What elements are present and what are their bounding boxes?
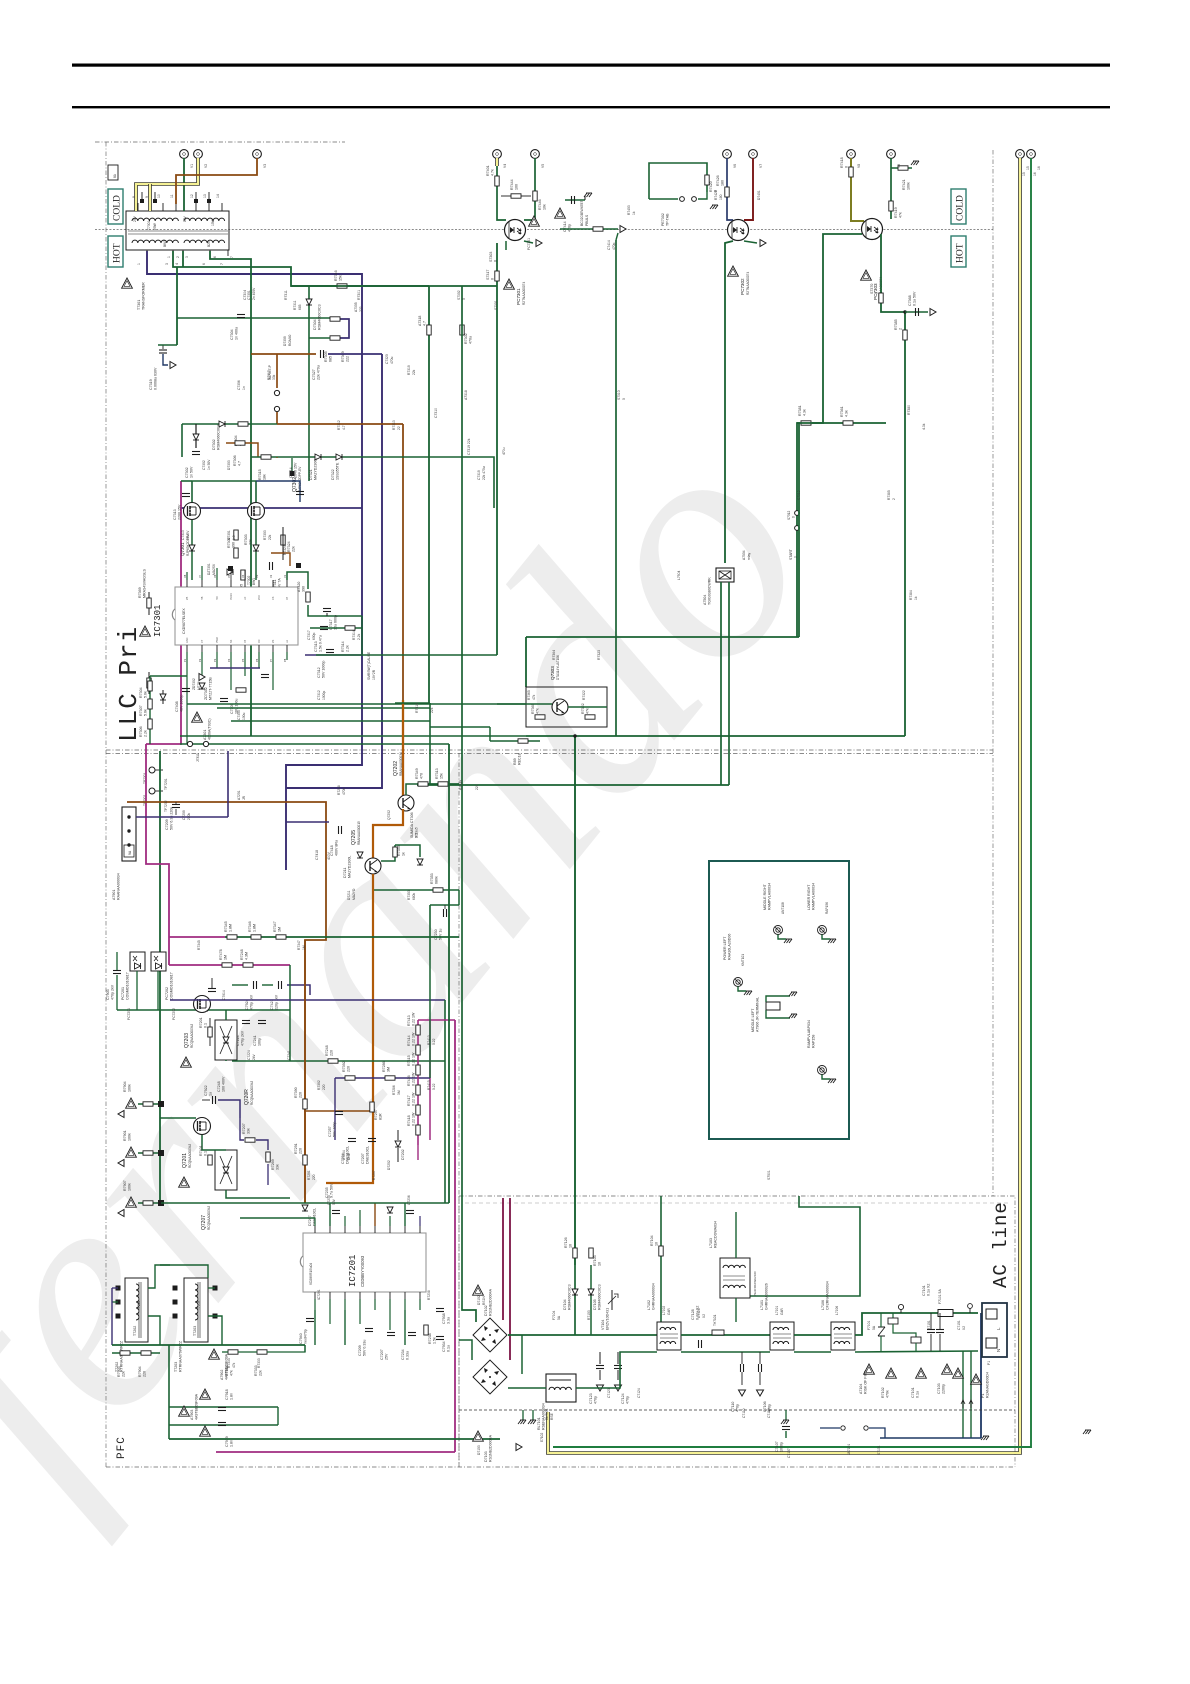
MOSFET Q7302 (255, 481, 257, 502)
svg-text:R7426: R7426 (714, 190, 718, 200)
zener D7202 (395, 1141, 401, 1147)
svg-text:SMRSW(T)CAUSE: SMRSW(T)CAUSE (367, 651, 371, 680)
svg-text:R7385: R7385 (894, 319, 898, 330)
svg-text:R7101: R7101 (927, 1320, 931, 1330)
svg-text:R7305: R7305 (324, 351, 328, 362)
svg-text:C7101: C7101 (922, 1285, 926, 1296)
svg-text:0: 0 (792, 516, 796, 518)
svg-text:X2: X2 (962, 1326, 966, 1330)
svg-text:220: 220 (143, 1371, 147, 1377)
svg-text:R7444: R7444 (510, 179, 514, 190)
svg-text:IC7201: IC7201 (348, 1255, 358, 1287)
svg-text:C7110: C7110 (742, 1408, 746, 1418)
resistor R7346 (251, 935, 261, 939)
svg-text:0.22: 0.22 (432, 1038, 436, 1045)
svg-text:COLD: COLD (956, 195, 966, 221)
svg-text:T7202: T7202 (133, 1326, 137, 1336)
svg-text:L7106: L7106 (821, 1300, 825, 1310)
terminal V1 (180, 150, 189, 159)
svg-text:25V: 25V (133, 215, 137, 222)
svg-text:R7319: R7319 (415, 703, 419, 713)
svg-text:R7103: R7103 (587, 1310, 591, 1320)
triangle bottom left (209, 1349, 220, 1359)
svg-text:100k: 100k (128, 1084, 132, 1092)
cap C7319 (162, 345, 164, 349)
svg-text:33k: 33k (276, 1164, 280, 1170)
svg-text:100k: 100k (907, 182, 911, 190)
resistor R7305b (226, 443, 258, 457)
svg-text:C7236: C7236 (407, 1195, 411, 1205)
svg-text:C7123: C7123 (607, 1388, 611, 1398)
svg-text:4.7: 4.7 (423, 321, 427, 326)
cap C7421 (279, 981, 282, 989)
cap C7934 (436, 1337, 444, 1340)
cap C7101 (927, 1330, 935, 1333)
svg-text:4: 4 (175, 263, 179, 265)
sub board box (709, 861, 849, 1139)
terminal PC7303 a (847, 150, 856, 159)
svg-text:50V: 50V (332, 1198, 336, 1205)
cap (172, 805, 180, 808)
resistor R7426 (725, 187, 729, 197)
svg-text:PWM: PWM (216, 637, 219, 643)
svg-text:RGM4060C0C3: RGM4060C0C3 (568, 1284, 572, 1310)
cap C7313 (181, 480, 192, 482)
svg-text:PE7302: PE7302 (661, 213, 665, 226)
svg-text:R7313: R7313 (392, 420, 396, 430)
terminal green line (1027, 150, 1036, 159)
svg-text:220k: 220k (187, 812, 191, 820)
wire h1425 (169, 1424, 278, 1426)
resistor R7369b (148, 672, 150, 694)
svg-text:RGM4060C0C3: RGM4060C0C3 (598, 1284, 602, 1310)
svg-text:D7303: D7303 (227, 460, 231, 470)
svg-text:470p 2kV: 470p 2kV (241, 1030, 245, 1046)
svg-text:T7302: T7302 (247, 575, 251, 585)
jack J7310 (187, 741, 192, 746)
svg-text:F7101: F7101 (867, 1320, 871, 1330)
wires into PC7301 (495, 158, 498, 166)
svg-text:180: 180 (721, 180, 725, 186)
svg-text:J7310: J7310 (196, 753, 200, 762)
svg-text:R7401: R7401 (199, 1145, 203, 1156)
cap C7327 (321, 350, 324, 358)
svg-text:R7417: R7417 (407, 1095, 411, 1106)
svg-text:RS1NB2D0004A: RS1NB2D0004A (489, 1288, 493, 1316)
svg-text:C7106: C7106 (767, 1408, 771, 1418)
svg-text:IC7201: IC7201 (317, 1289, 321, 1300)
wire h1203 (161, 1202, 449, 1204)
svg-text:C7313: C7313 (181, 530, 185, 540)
svg-text:2: 2 (892, 498, 896, 500)
svg-text:R7365: R7365 (527, 690, 531, 700)
svg-text:680k: 680k (435, 876, 439, 884)
svg-text:RCQNAA00034J: RCQNAA00034J (190, 1023, 194, 1048)
ground arrow (620, 226, 626, 233)
magenta rail pfc (146, 744, 169, 965)
fuse resistor cluster above (574, 1265, 576, 1335)
green rail v160 (159, 751, 161, 1203)
svg-text:A7201: A7201 (237, 790, 241, 800)
resistor R7349 (418, 782, 428, 786)
svg-text:RSE: RSE (550, 1412, 554, 1420)
magenta v455 (454, 1020, 456, 1452)
svg-text:50V 6.3u 220k: 50V 6.3u 220k (170, 807, 174, 830)
circle E7101 (968, 1304, 973, 1309)
test point circles (149, 767, 155, 773)
svg-text:22k: 22k (259, 1370, 263, 1376)
svg-text:R7907: R7907 (123, 1180, 127, 1191)
svg-text:R7347: R7347 (273, 921, 277, 932)
resistor A7309 (287, 572, 308, 589)
wire green v177 (176, 267, 178, 345)
terminal V2 (194, 150, 203, 159)
svg-text:15k: 15k (440, 773, 444, 779)
svg-text:R7291: R7291 (307, 1170, 311, 1180)
wire h655 (316, 654, 497, 656)
svg-text:TGIG0380CWRK: TGIG0380CWRK (708, 577, 712, 605)
svg-text:L7103: L7103 (709, 1238, 713, 1248)
svg-text:R7248: R7248 (325, 1045, 329, 1056)
wire v169 bottom (168, 1345, 170, 1439)
wire yellow T7301 (136, 158, 198, 211)
wire h784 green (417, 783, 459, 785)
svg-text:D7104: D7104 (563, 1299, 567, 1310)
caps under N line (599, 1352, 601, 1364)
navy inlet down wire (980, 1313, 982, 1438)
svg-text:50V 1u: 50V 1u (439, 929, 443, 940)
svg-text:PC7201: PC7201 (127, 1008, 131, 1020)
svg-text:13: 13 (203, 194, 207, 198)
TH7101 thermistor (712, 1330, 724, 1335)
svg-text:0.22 1W: 0.22 1W (412, 1092, 416, 1106)
svg-text:47k: 47k (532, 694, 536, 700)
svg-text:400V 8Ru: 400V 8Ru (335, 840, 339, 856)
svg-text:5.6k: 5.6k (144, 709, 148, 716)
svg-text:0: 0 (491, 278, 495, 280)
svg-text:1u: 1u (209, 1092, 213, 1096)
svg-text:MA2YD2300L: MA2YD2300L (348, 856, 352, 878)
svg-text:PGND: PGND (230, 593, 233, 600)
svg-text:1.5k 0.47u: 1.5k 0.47u (319, 635, 323, 652)
svg-text:1M: 1M (302, 945, 306, 950)
svg-text:81R: 81R (379, 1113, 383, 1120)
svg-text:1.8M: 1.8M (253, 924, 257, 932)
svg-text:D7103: D7103 (477, 1445, 481, 1455)
svg-text:C7306: C7306 (237, 380, 241, 390)
svg-text:2040 15V: 2040 15V (294, 462, 298, 478)
svg-text:R7345: R7345 (224, 921, 228, 932)
wire h744 (180, 743, 449, 745)
diode D7207 (302, 1205, 308, 1211)
resistor R7207 (245, 1138, 255, 1142)
svg-text:C7938: C7938 (442, 1313, 446, 1324)
svg-text:G4R: G4R (667, 1308, 671, 1315)
svg-text:V4: V4 (241, 574, 245, 578)
svg-text:C0DBBYY00093: C0DBBYY00093 (360, 1255, 365, 1287)
resistor R7309 (330, 336, 340, 340)
svg-text:1.0: 1.0 (232, 535, 236, 540)
svg-text:SS: SS (230, 639, 233, 643)
svg-text:RAA36LA20D06: RAA36LA20D06 (728, 934, 732, 960)
wire h708 (217, 707, 430, 709)
svg-text:V6: V6 (733, 164, 737, 168)
svg-text:R7401: R7401 (486, 165, 490, 176)
svg-text:3M: 3M (387, 1067, 391, 1072)
resistor R7333 (257, 1350, 267, 1354)
green v430b (429, 960, 431, 1078)
svg-text:C7302: C7302 (202, 460, 206, 470)
svg-text:0.0068u 630V: 0.0068u 630V (154, 367, 158, 390)
svg-text:A7903: A7903 (190, 1410, 194, 1420)
svg-text:C7101: C7101 (911, 1387, 915, 1398)
svg-text:L7101: L7101 (775, 1306, 779, 1315)
resistor R7269 (266, 1152, 270, 1162)
svg-text:15: 15 (1022, 172, 1026, 176)
svg-text:0.1u: 0.1u (916, 1391, 920, 1398)
svg-text:R7324: R7324 (287, 541, 291, 552)
Q7207 pack (215, 1150, 237, 1190)
svg-text:ZD7302: ZD7302 (192, 678, 196, 690)
svg-text:22k 470u: 22k 470u (317, 365, 321, 380)
wire dark red PC7302 (744, 158, 753, 220)
svg-text:7: 7 (230, 256, 234, 258)
svg-text:6: 6 (213, 256, 217, 258)
resistor R7305 (330, 317, 340, 321)
svg-text:22k: 22k (292, 546, 296, 552)
wire h423 (797, 422, 886, 424)
maroon verticals ac left (502, 1198, 504, 1320)
svg-text:A7901: A7901 (112, 890, 116, 900)
svg-text:JR: JR (242, 795, 246, 800)
svg-text:RAMPVLA00034: RAMPVLA00034 (812, 883, 816, 910)
svg-text:R7201: R7201 (199, 1017, 203, 1028)
svg-text:B2V: B2V (207, 240, 211, 247)
bridge rectifier D7101 (473, 1318, 507, 1352)
svg-text:33k: 33k (247, 1128, 251, 1134)
svg-text:R7415: R7415 (427, 1080, 431, 1090)
svg-text:R7901: R7901 (123, 1130, 127, 1141)
varistor sym (611, 1290, 613, 1310)
svg-text:R7353: R7353 (430, 873, 434, 884)
svg-text:R7269: R7269 (271, 1159, 275, 1170)
resistor R7345 (227, 935, 237, 939)
svg-text:C7241: C7241 (253, 1035, 257, 1046)
brown rail h802 (127, 802, 326, 1203)
svg-text:F7104: F7104 (552, 1310, 556, 1320)
svg-text:C7918: C7918 (225, 1389, 229, 1400)
screw POWER LEFT (734, 978, 747, 992)
svg-text:S7317: S7317 (486, 270, 490, 280)
svg-text:C7919: C7919 (225, 1436, 229, 1447)
svg-text:15W: 15W (211, 218, 215, 226)
resistor R7291 (303, 1155, 307, 1165)
svg-text:A7906 JR-TERMINAL: A7906 JR-TERMINAL (756, 997, 760, 1032)
svg-text:0.22 1W: 0.22 1W (412, 1072, 416, 1086)
svg-text:AC line: AC line (990, 1201, 1012, 1288)
svg-text:222: 222 (346, 356, 350, 362)
svg-text:LO: LO (244, 597, 247, 600)
svg-text:ANT108: ANT108 (781, 902, 785, 914)
svg-text:D7211: D7211 (347, 890, 351, 900)
svg-text:22k 470u: 22k 470u (482, 466, 486, 480)
svg-text:470: 470 (420, 773, 424, 779)
svg-text:S7312: S7312 (797, 490, 801, 500)
svg-text:POWER LEFT: POWER LEFT (723, 936, 727, 960)
svg-text:C7903: C7903 (106, 989, 110, 1000)
svg-text:0.22 1W: 0.22 1W (412, 1032, 416, 1046)
svg-text:RCQNAA00034J: RCQNAA00034J (188, 1143, 192, 1168)
svg-text:47k: 47k (536, 708, 540, 714)
svg-text:V4: V4 (503, 164, 507, 168)
terminal yellow line (1016, 150, 1025, 159)
transistor Q7205 (365, 858, 381, 874)
svg-text:C7327: C7327 (312, 369, 316, 380)
svg-text:1n 50V: 1n 50V (190, 466, 194, 478)
svg-text:R7316: R7316 (334, 270, 338, 281)
svg-text:C7408: C7408 (175, 701, 179, 712)
bridge rectifier D7102 (473, 1360, 507, 1394)
svg-text:C7368: C7368 (908, 295, 912, 306)
svg-text:47k: 47k (899, 212, 903, 218)
svg-text:R89: R89 (513, 758, 517, 765)
green h937 magenta start (169, 936, 225, 938)
svg-text:400V: 400V (327, 851, 331, 860)
resistor R7297 (370, 1102, 374, 1112)
resistor R7126 (573, 1248, 577, 1258)
caps C7224 C7241 (242, 1021, 250, 1024)
svg-text:47k: 47k (586, 708, 590, 714)
svg-text:V3: V3 (263, 164, 267, 168)
svg-text:470p: 470p (594, 1396, 598, 1404)
svg-text:R7353: R7353 (407, 890, 411, 900)
cap C7106 (759, 1364, 762, 1372)
row y965 (169, 964, 290, 966)
terminal PC7301 b (531, 150, 540, 159)
cap C7236 (406, 1211, 414, 1214)
svg-text:MIDDLE RIGHT: MIDDLE RIGHT (763, 883, 767, 910)
green h424 diode cluster (182, 423, 277, 425)
svg-text:22k: 22k (412, 369, 416, 375)
svg-text:HOT: HOT (113, 243, 123, 263)
transformer L7104 vertical pair (564, 1329, 566, 1331)
resistor R89 below (490, 740, 540, 742)
svg-text:2.2k: 2.2k (144, 730, 148, 737)
op-amp IC7301 (175, 587, 298, 645)
svg-text:G4RNAA000026: G4RNAA000026 (765, 1283, 769, 1310)
svg-text:R7349: R7349 (415, 768, 419, 779)
svg-text:1.8M: 1.8M (229, 924, 233, 932)
svg-text:C7304: C7304 (230, 329, 234, 340)
svg-text:TP7201: TP7201 (164, 778, 168, 790)
small parts row (241, 570, 245, 580)
AC line section border (459, 1196, 1015, 1467)
svg-text:680k: 680k (412, 892, 416, 900)
svg-text:R7392: R7392 (317, 1080, 321, 1090)
cap C7110 (741, 1364, 744, 1372)
watermark fernando (0, 370, 881, 1551)
svg-text:next470p: next470p (304, 1329, 308, 1344)
svg-text:A7320: A7320 (297, 582, 301, 592)
svg-text:R7102: R7102 (881, 1387, 885, 1398)
svg-text:CT: CT (201, 639, 204, 643)
svg-text:C7128: C7128 (697, 1308, 701, 1318)
svg-text:R7291: R7291 (294, 1143, 298, 1154)
svg-text:390: 390 (232, 542, 236, 548)
diode D7211 (357, 852, 363, 858)
wire brown T7301 (176, 158, 257, 204)
svg-text:8: 8 (132, 196, 136, 198)
svg-text:11: 11 (170, 194, 174, 198)
svg-text:1M: 1M (278, 927, 282, 932)
svg-text:A7504: A7504 (742, 550, 746, 560)
svg-text:47k: 47k (230, 1370, 234, 1376)
brown net into IC (304, 940, 306, 1203)
svg-text:P1: P1 (987, 1361, 991, 1365)
svg-text:S7312: S7312 (787, 511, 791, 520)
svg-text:E7102: E7102 (540, 1433, 544, 1442)
svg-text:R7307: R7307 (139, 705, 143, 716)
cap C7304 (237, 315, 245, 318)
svg-text:HOT: HOT (956, 243, 966, 263)
terminal PC7301 a (493, 150, 502, 159)
svg-text:100: 100 (515, 184, 519, 190)
svg-text:10: 10 (569, 1244, 573, 1248)
jumper MIDDLE LEFT (766, 1002, 780, 1010)
svg-text:470u: 470u (390, 356, 394, 364)
cap C7317 (323, 609, 331, 612)
caps between lines (681, 1334, 770, 1336)
svg-text:685: 685 (298, 304, 302, 310)
wire brown h424 (277, 423, 403, 425)
MOSFET Q7301 (191, 481, 193, 502)
purple h508 (181, 507, 362, 509)
wire h1010 (117, 1009, 290, 1011)
svg-text:R7286: R7286 (382, 1061, 386, 1072)
svg-text:47k: 47k (232, 1362, 236, 1368)
svg-text:BC0203EW4787: BC0203EW4787 (580, 201, 584, 226)
svg-text:C7310: C7310 (434, 408, 438, 418)
cap C7207 (368, 1139, 376, 1142)
diode D7304 (306, 299, 312, 305)
svg-text:R7314: R7314 (341, 641, 345, 652)
wire PC7303 left leg (812, 234, 862, 423)
svg-text:0719u5: 0719u5 (415, 827, 419, 838)
svg-text:D7309: D7309 (283, 336, 287, 346)
label HOT (108, 236, 123, 267)
svg-text:0.1u: 0.1u (447, 1345, 451, 1352)
svg-text:10: 10 (598, 1262, 602, 1266)
svg-text:1k: 1k (914, 596, 918, 600)
svg-text:R7414: R7414 (407, 1035, 411, 1046)
svg-text:22: 22 (397, 426, 401, 430)
svg-text:7: 7 (220, 263, 224, 265)
svg-text:DTA114YUAT106: DTA114YUAT106 (556, 655, 560, 680)
svg-text:R7418: R7418 (840, 157, 844, 168)
resistor stack left (149, 676, 151, 744)
svg-text:R7381: R7381 (798, 405, 802, 416)
svg-text:R7392: R7392 (342, 1061, 346, 1072)
svg-text:T7203: T7203 (197, 1300, 201, 1310)
svg-text:C7128: C7128 (691, 1309, 695, 1320)
transistor Q7303 (526, 687, 607, 727)
wire olive (851, 158, 864, 221)
resistor R7361 (843, 421, 853, 425)
svg-text:10: 10 (655, 1242, 659, 1246)
svg-text:9A: 9A (128, 850, 132, 855)
resistor R7401 (495, 176, 499, 186)
purple h668 (210, 667, 260, 669)
